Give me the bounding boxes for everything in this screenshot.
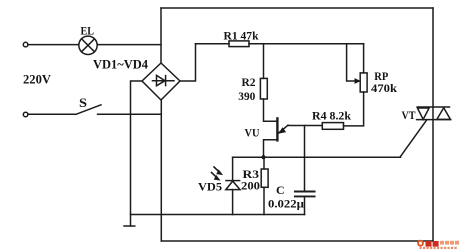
potentiometer RP	[347, 44, 368, 92]
wire VD5 bottom lead	[232, 190, 234, 215]
svg-text:VD1~VD4: VD1~VD4	[93, 57, 149, 71]
svg-text:200: 200	[241, 179, 260, 193]
transistor VU	[264, 118, 289, 157]
wire C bottom lead	[304, 197, 306, 214]
resistor R3	[261, 169, 268, 187]
node B1 junction	[261, 155, 265, 159]
wire top rail	[161, 7, 433, 9]
resistor R2	[260, 78, 267, 99]
svg-text:220V: 220V	[23, 72, 52, 87]
triac VT	[417, 107, 451, 120]
wire bridge minus lead	[131, 81, 143, 226]
wire switch left	[28, 113, 76, 115]
ground bar	[124, 225, 135, 227]
lamp EL	[79, 36, 97, 54]
resistor R4	[322, 123, 343, 130]
svg-text:S: S	[79, 95, 87, 110]
svg-text:R1 47k: R1 47k	[224, 29, 259, 43]
capacitor C	[295, 192, 315, 197]
wire emitter to R4	[288, 125, 322, 127]
wire AC1 vertical	[160, 8, 162, 63]
wire R1 left	[196, 43, 230, 45]
wire lamp left	[28, 44, 79, 46]
svg-text:R4 8.2k: R4 8.2k	[312, 109, 351, 123]
svg-text:R2: R2	[242, 75, 256, 89]
svg-text:EL: EL	[81, 24, 95, 38]
wire bottom rail	[161, 240, 433, 242]
wire R3 bottom lead	[263, 187, 265, 214]
wire C top lead	[304, 126, 306, 192]
svg-text:470k: 470k	[371, 81, 397, 95]
terminal lower left	[23, 112, 28, 117]
watermark logo	[417, 240, 459, 249]
svg-text:0.022µ: 0.022µ	[268, 197, 304, 211]
svg-text:VT: VT	[402, 108, 416, 122]
bridge rectifier VD1~VD4	[142, 63, 180, 100]
wire R2 bottom lead	[264, 99, 278, 121]
switch S blade	[76, 105, 101, 115]
wire lamp right	[97, 44, 161, 46]
wire gate diagonal	[401, 120, 427, 157]
wire inner bottom rail	[131, 214, 305, 216]
svg-text:VU: VU	[245, 125, 260, 139]
resistor R1	[229, 41, 249, 47]
wire bridge plus lead	[180, 44, 196, 81]
terminal upper left	[23, 42, 28, 47]
wire gate rail	[233, 156, 401, 158]
wire R4 right to RP bottom	[344, 92, 364, 126]
diode VD5	[212, 167, 241, 190]
svg-text:C: C	[276, 183, 285, 197]
wire R2 top lead	[263, 44, 265, 79]
wire R1 right to RP	[249, 43, 364, 45]
wire VD5 top lead	[232, 157, 234, 180]
wire R3 top lead	[263, 157, 265, 169]
wire right rail	[432, 8, 434, 241]
wire switch right	[98, 113, 162, 115]
wire AC2 vertical	[160, 100, 162, 241]
svg-text:VD5: VD5	[198, 180, 222, 194]
svg-text:390: 390	[238, 89, 255, 103]
